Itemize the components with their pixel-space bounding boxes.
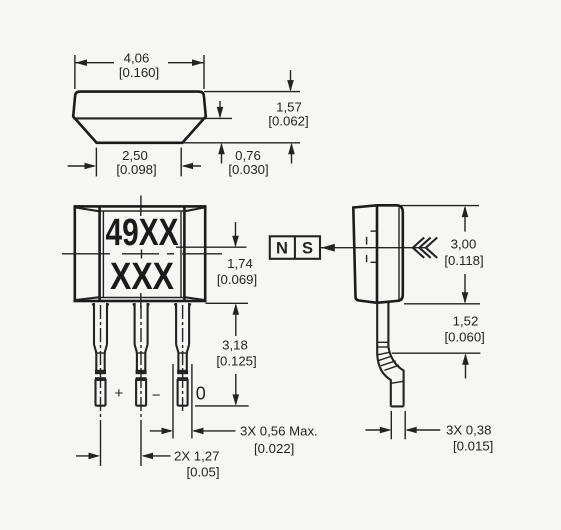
svg-text:3X 0,56 Max.: 3X 0,56 Max.	[240, 424, 318, 439]
front face thick edge left	[98, 206, 101, 301]
svg-text:1,52: 1,52	[453, 314, 479, 329]
dim 2,50 extension line left	[95, 148, 97, 177]
svg-text:XXX: XXX	[110, 256, 175, 298]
lead root flare	[92, 304, 94, 309]
top view package outline	[73, 92, 206, 143]
bend tick 1	[377, 341, 388, 343]
svg-text:S: S	[302, 240, 313, 258]
svg-text:0: 0	[196, 384, 206, 404]
front face bottom edge	[100, 297, 185, 299]
svg-text:N: N	[276, 240, 288, 258]
hall element line	[176, 246, 247, 248]
dim 4,06 arrow right	[192, 59, 204, 66]
lead tip extension line	[195, 405, 249, 407]
dim 1,52 up arrow	[465, 355, 467, 379]
dim 3X 0,38 arrow right	[407, 429, 440, 431]
front view outer body	[75, 206, 205, 301]
front face top edge	[100, 210, 185, 212]
dim 0,76 bottom arrow	[221, 145, 223, 164]
dim 3,00 bottom extension	[404, 303, 480, 305]
dim 1,52 bottom extension	[392, 352, 481, 354]
branding area thin line right	[180, 211, 182, 298]
dim 3X 0,56 extension line right	[191, 364, 193, 439]
dim 3,00 down arrow	[464, 274, 466, 302]
dim 3,00 up arrow	[464, 208, 466, 232]
dim 3,18 bottom arrow	[235, 374, 237, 404]
bend hatch lines	[378, 356, 392, 361]
svg-text:3,18: 3,18	[222, 338, 248, 353]
lead 1 solder bands	[95, 370, 106, 374]
branding area thin line left	[102, 211, 104, 298]
svg-text:3,00: 3,00	[451, 237, 477, 252]
svg-text:1,57: 1,57	[276, 100, 302, 115]
bend tick 3 tilted	[377, 352, 390, 355]
magnet divider	[294, 236, 296, 258]
hall element dashed rect	[367, 231, 378, 262]
centerline tick at hall line	[141, 250, 143, 259]
svg-text:[0.160]: [0.160]	[119, 65, 159, 80]
field chevron 3	[426, 238, 437, 258]
dim 4,06 line left segment	[75, 62, 114, 64]
svg-text:[0.022]: [0.022]	[254, 441, 294, 456]
svg-text:[0.060]: [0.060]	[445, 330, 485, 345]
svg-text:3X 0,38: 3X 0,38	[446, 423, 491, 438]
magnet N-S box	[270, 236, 320, 258]
svg-text:[0.015]: [0.015]	[453, 439, 493, 454]
dim 3X 0,38 arrow left	[366, 429, 390, 431]
lead 3 solder bands	[177, 370, 188, 374]
svg-text:4,06: 4,06	[124, 51, 150, 66]
side view front-face edge	[376, 205, 379, 302]
dim 1,74 top arrow	[235, 222, 237, 246]
dim 3X 0,56 arrow left	[150, 430, 171, 432]
svg-text:[0.098]: [0.098]	[116, 162, 156, 177]
dim 1,57 top arrow	[290, 70, 292, 90]
dim 4,06 line right segment	[168, 62, 204, 64]
dim 2X 1,27 arrow right	[144, 455, 171, 457]
dim 1,74/3,18 shared up arrow	[235, 305, 237, 336]
field chevron 2	[419, 238, 430, 258]
dim 3X 0,56 arrow right	[194, 430, 236, 432]
top edge extension right	[204, 91, 300, 93]
svg-text:1,74: 1,74	[227, 256, 253, 271]
svg-text:[0.030]: [0.030]	[228, 162, 268, 177]
svg-text:49XX: 49XX	[106, 212, 180, 254]
chamfer diagonal top-right	[184, 208, 204, 212]
dim 0,76 top arrow	[219, 101, 221, 117]
dim 4,06 arrow left	[75, 59, 87, 66]
lead root flare	[133, 304, 135, 309]
front face thick edge right	[183, 206, 186, 301]
lead tip bottom	[391, 405, 404, 406]
svg-text:0,76: 0,76	[235, 148, 261, 163]
magnet arrow line	[321, 247, 426, 249]
lead 2	[135, 303, 148, 406]
side view lead left edge	[377, 303, 391, 406]
lead 1	[94, 303, 107, 406]
dim 2,50 arrow right	[184, 165, 202, 167]
side view lead right edge	[388, 303, 403, 406]
dim 4,06 extension line left	[74, 55, 76, 89]
dim 3X 0,38 extension line left	[390, 411, 392, 439]
lower tick	[391, 381, 404, 383]
top view mid parting line	[73, 117, 206, 119]
svg-text:2X 1,27: 2X 1,27	[174, 449, 219, 464]
lead 2 centerline extended	[140, 305, 142, 432]
side view right inner line	[398, 208, 400, 300]
lead 2 solder bands	[136, 370, 147, 374]
svg-text:[0.069]: [0.069]	[217, 272, 257, 287]
svg-text:2,50: 2,50	[122, 148, 148, 163]
lead 3	[176, 303, 189, 406]
mid line extension right	[206, 117, 232, 119]
bottom edge extension right	[182, 142, 300, 144]
dim 3X 0,56 extension line left	[172, 364, 174, 439]
chamfer diagonal bottom-left	[76, 297, 100, 300]
chamfer diagonal bottom-right	[184, 297, 204, 300]
svg-text:[0.125]: [0.125]	[216, 354, 256, 369]
magnet arrowhead	[321, 244, 335, 252]
dim 2,50 arrow left	[68, 165, 94, 167]
lead 1 centerline	[100, 305, 102, 432]
side view body outline	[353, 205, 403, 302]
package bottom extension right	[206, 302, 249, 304]
dim 1,57 bottom arrow	[291, 145, 293, 164]
chamfer diagonal top-left	[76, 208, 100, 212]
dim 3,00 top extension	[401, 205, 479, 207]
lead 3 centerline	[182, 305, 184, 413]
front view vertical centerline upper	[140, 206, 142, 216]
dim 2X 1,27 arrow left	[76, 455, 98, 457]
svg-text:[0.05]: [0.05]	[187, 465, 220, 480]
package horizontal centerline (dash-dot)	[62, 253, 110, 255]
lead root flare	[174, 304, 176, 309]
top view centerline	[140, 196, 142, 213]
front view vertical centerline lower	[140, 293, 142, 308]
dim 2,50 extension line right	[180, 148, 182, 177]
bend tick 2	[377, 346, 388, 348]
svg-text:−: −	[152, 387, 161, 404]
dim 4,06 extension line right	[203, 55, 205, 89]
dim 3X 0,38 extension line right	[404, 411, 406, 439]
svg-text:+: +	[115, 385, 124, 402]
field chevron 1	[413, 238, 424, 258]
svg-text:[0.062]: [0.062]	[268, 114, 308, 129]
svg-text:[0.118]: [0.118]	[444, 253, 483, 268]
